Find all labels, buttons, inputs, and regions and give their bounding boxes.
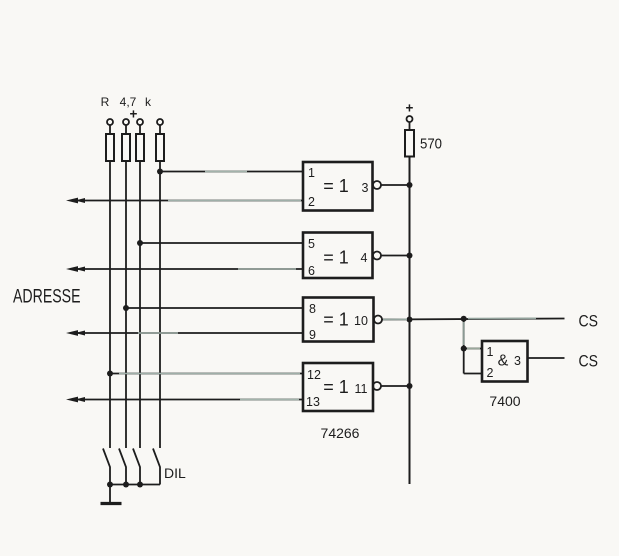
- svg-text:74266: 74266: [321, 425, 360, 441]
- node CS tap to U2: [461, 316, 467, 322]
- svg-text:1: 1: [308, 166, 315, 180]
- wire switch common bus: [110, 484, 160, 486]
- wire faded segment CS: [468, 317, 536, 319]
- wire faded segment pin6: [238, 268, 296, 270]
- svg-text:10: 10: [354, 314, 368, 328]
- wire faded segment pin9: [138, 332, 178, 334]
- wire faded segment pin1: [205, 171, 247, 173]
- svg-text:= 1: = 1: [323, 377, 349, 397]
- node col4 junction: [157, 169, 163, 175]
- resistor R2: [122, 119, 130, 161]
- wire col1 to gate U1d pin 12: [110, 373, 303, 375]
- svg-text:&: &: [498, 353, 509, 370]
- wire to ground: [109, 485, 111, 503]
- XNOR gate U1c (74266, pins 8,9 -> 10): [303, 298, 382, 343]
- wire to U2 pin 1: [464, 348, 482, 350]
- resistor R3: [136, 119, 144, 161]
- svg-text:= 1: = 1: [323, 248, 349, 268]
- svg-text:570: 570: [420, 136, 442, 153]
- node U2 pin1 tap: [461, 346, 467, 352]
- wire faded segment pin13: [240, 399, 299, 401]
- wire U1b output pin 4 to bus: [381, 255, 410, 257]
- wire faded segment pin2: [168, 200, 301, 202]
- svg-text:= 1: = 1: [323, 176, 349, 196]
- svg-text:3: 3: [514, 354, 521, 368]
- address wire A3 with arrow: [66, 397, 303, 403]
- DIL switch S2: [119, 449, 126, 485]
- node col2 junction: [123, 305, 129, 311]
- svg-text:+: +: [406, 101, 414, 116]
- svg-text:9: 9: [309, 328, 316, 342]
- svg-text:ADRESSE: ADRESSE: [13, 286, 81, 308]
- wire column 1 (R1 to switch): [109, 161, 111, 448]
- wire to U2 pin 2: [464, 373, 482, 375]
- resistor R5 570: [405, 122, 414, 157]
- wire U1c output pin 10 to CS: [382, 319, 565, 320]
- svg-text:11: 11: [355, 382, 368, 396]
- svg-text:= 1: = 1: [323, 310, 349, 330]
- svg-text:4: 4: [361, 251, 368, 265]
- XNOR gate U1b (74266, pins 5,6 -> 4): [303, 233, 381, 279]
- svg-text:+: +: [130, 107, 138, 122]
- svg-text:CS: CS: [579, 312, 599, 331]
- node bus/U1d out: [407, 383, 413, 389]
- wire column 2 (R2 to switch): [125, 161, 127, 448]
- wire faded segment U2 pin1: [467, 348, 480, 350]
- supply terminal circle: [407, 116, 413, 122]
- XNOR gate U1d (74266, pins 12,13 -> 11): [303, 363, 381, 411]
- wire faded segment U1c out: [383, 318, 407, 320]
- NAND gate U2 (7400, pins 1,2 -> 3): [482, 341, 528, 382]
- bus wire (570 to gate outputs): [409, 157, 411, 485]
- node switch bus S1: [107, 482, 113, 488]
- wire col3 to gate U1b pin 5: [140, 242, 303, 244]
- svg-text:5: 5: [308, 237, 315, 251]
- node bus/U1c out: [407, 317, 413, 323]
- svg-text:DIL: DIL: [164, 465, 186, 481]
- resistor R1: [106, 119, 114, 161]
- wire col4 to gate U1a pin 1: [160, 171, 303, 173]
- svg-text:1: 1: [487, 345, 494, 359]
- node switch bus S2: [123, 482, 129, 488]
- wire column 4 (R4 to switch): [159, 161, 161, 448]
- wire column 3 (R3 to switch): [139, 161, 141, 448]
- wire U1d output pin 11 to bus: [381, 385, 410, 387]
- DIL switch S4: [153, 449, 160, 485]
- XNOR gate U1a (74266, pins 1,2 -> 3): [303, 162, 381, 211]
- address wire A2 with arrow: [66, 330, 303, 336]
- address wire A1 with arrow: [66, 266, 303, 272]
- svg-text:8: 8: [309, 302, 316, 316]
- svg-text:12: 12: [307, 368, 321, 382]
- wire col2 to gate U1c pin 8: [126, 307, 303, 309]
- svg-text:6: 6: [308, 264, 315, 278]
- wire faded segment U2 stub: [463, 322, 465, 345]
- wire U1a output pin 3 to bus: [381, 184, 410, 186]
- svg-text:2: 2: [308, 195, 315, 209]
- label R 4,7 k: [101, 95, 152, 109]
- svg-text:7400: 7400: [489, 393, 520, 409]
- svg-text:2: 2: [487, 366, 494, 380]
- wire U2 output pin 3 to CS-bar: [528, 357, 565, 359]
- address wire A0 with arrow: [66, 198, 303, 204]
- DIL switch S3: [133, 449, 140, 485]
- wire faded segment pin12: [119, 373, 300, 375]
- wire tap down to U2 inputs: [463, 319, 465, 374]
- svg-text:R: R: [101, 95, 110, 109]
- svg-text:13: 13: [306, 395, 320, 409]
- node switch bus S3: [137, 482, 143, 488]
- svg-text:CS: CS: [579, 352, 599, 371]
- node bus/U1a out: [407, 182, 413, 188]
- node bus/U1b out: [407, 253, 413, 259]
- node col3 junction: [137, 240, 143, 246]
- svg-text:3: 3: [362, 181, 369, 195]
- ground: [101, 502, 122, 505]
- node col1 junction: [107, 371, 113, 377]
- svg-text:k: k: [145, 95, 152, 109]
- DIL switch S1: [103, 449, 110, 485]
- resistor R4: [156, 119, 164, 161]
